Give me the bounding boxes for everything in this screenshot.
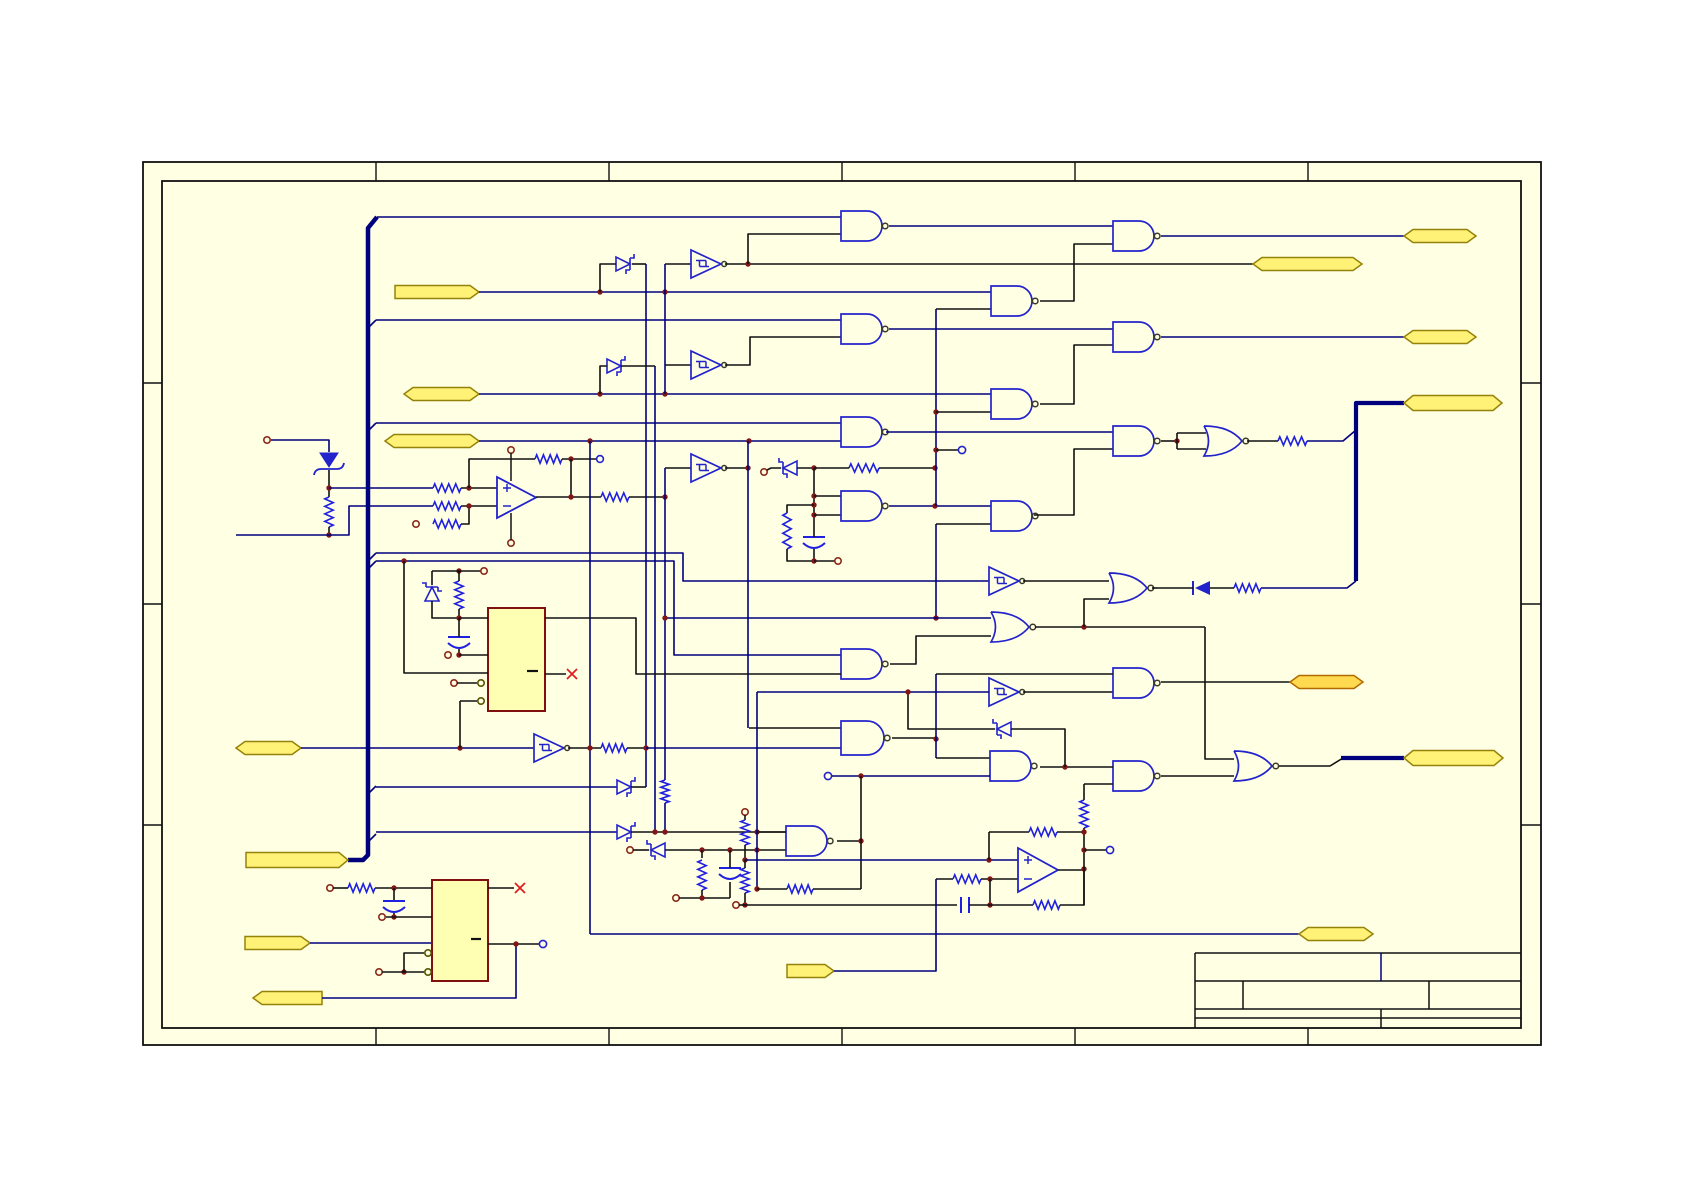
G5.B corner (936, 308, 991, 310)
row905 right part (969, 904, 1033, 906)
junction plus node (742, 857, 747, 862)
R13 top (458, 571, 460, 581)
resistor R4 (433, 520, 461, 528)
net F7 row (322, 944, 516, 998)
open pin P5 (835, 558, 841, 564)
op-amp U1 (497, 477, 536, 518)
net label FLAG15 (1404, 751, 1503, 766)
junction RC2 (699, 895, 704, 900)
U9 pin1 wire (459, 617, 488, 619)
wire D9 to node A (328, 470, 330, 497)
resistor R21 (vertical) (1080, 800, 1088, 828)
U9 pin2 wire (459, 654, 488, 656)
wire node B to minus row (329, 506, 433, 535)
U7 out (568, 747, 601, 749)
zener D7 (617, 822, 635, 842)
NOR1 tie (1176, 433, 1178, 449)
op-amp U1 V+ pin (508, 447, 514, 481)
zener D9 (filled, down) (314, 453, 344, 475)
open pin P13 (445, 652, 451, 658)
G17.A feed (749, 727, 841, 729)
resistor R20 (1033, 901, 1060, 909)
net label FLAG10 (1404, 230, 1476, 243)
op-amp U1 output (536, 496, 601, 498)
G3 out row (886, 431, 1113, 433)
G10 out to flag (1161, 336, 1404, 338)
NAND gate G7 (991, 501, 1038, 531)
diode D1 leads (1157, 587, 1193, 589)
G14.A wire (757, 831, 786, 833)
G9 out to flag (1161, 235, 1404, 237)
junction G17 out (933, 736, 938, 741)
G14 out (837, 840, 861, 842)
junction feedback (568, 456, 573, 461)
NAND gate G3 (841, 417, 888, 447)
wire R6 to trunk (629, 496, 665, 498)
junction U8 pin1 (391, 885, 396, 890)
op-amp U1 V- pin (508, 513, 514, 546)
junction U7 out (587, 745, 592, 750)
resistor R9 (1278, 437, 1307, 445)
junction R13 bottom (456, 615, 461, 620)
inverter U3 (schmitt) (691, 351, 727, 379)
bus BUS1 (thick vertical) (348, 217, 377, 860)
net label FLAG5 (wide) (246, 853, 348, 868)
cap C2 riser (393, 888, 395, 900)
G17 out row (892, 737, 936, 739)
open pin P4 (761, 469, 767, 475)
G1 out row (889, 225, 1113, 227)
INV2 out riser to G2.B (725, 337, 841, 365)
NAND gate G11 (1113, 426, 1160, 456)
junction row850 (699, 847, 759, 852)
NAND gate G6 (991, 389, 1038, 419)
junctions trunk T8a (933, 409, 938, 452)
net row 933 (590, 933, 1299, 935)
NOR gate G8 (991, 612, 1036, 642)
R9 to bus2 (1307, 430, 1356, 441)
trunk T3 (654, 366, 656, 832)
bus row top (377, 216, 841, 218)
U9 pin5 riser (459, 701, 461, 748)
zener D5 top lead (431, 571, 433, 585)
NAND gate G17 (841, 721, 890, 755)
G4.B feed (814, 514, 841, 516)
junction minus node (987, 876, 992, 881)
NOR1 in a (1177, 432, 1206, 434)
NAND gate G10 (1113, 322, 1160, 352)
resistor R1 (vertical) (325, 497, 333, 527)
zener D5 (422, 583, 442, 601)
resistor R7 (849, 464, 879, 472)
NAND gate G14 (786, 826, 833, 856)
junction U6 row tap (905, 689, 910, 694)
net F8 row (834, 879, 936, 971)
U8 output (488, 943, 540, 945)
net F2 row (479, 393, 991, 395)
junction P10 (401, 969, 406, 974)
G8 net to NOR4.A (1205, 627, 1234, 759)
junction node A (326, 485, 331, 490)
resistor R2 (433, 484, 461, 492)
fb top row (989, 831, 1029, 833)
zener D8 right lead (665, 849, 786, 851)
junction D5 top (456, 568, 461, 573)
junction plus row (986, 857, 991, 862)
diode D1 to R10 (1210, 587, 1234, 589)
P8 to R12 (333, 887, 348, 889)
G11 out to NOR1 (1161, 440, 1177, 442)
row 898 (679, 897, 730, 899)
G18 out (1040, 766, 1113, 768)
vert x814 (813, 468, 815, 535)
NAND gate G5 (991, 286, 1038, 316)
open pin P2 (413, 521, 419, 527)
junctions F2 row (597, 391, 667, 396)
G19 out jog to G8.B (890, 636, 991, 664)
border zone ticks (143, 162, 1541, 1045)
zener D6 (617, 777, 635, 797)
stub to pin P12 (459, 570, 481, 572)
trunk T2 (zener column) (645, 264, 647, 787)
U9 riser from bus row (404, 561, 488, 673)
U8 pin bubble a (425, 969, 431, 975)
feedback tap (562, 458, 596, 460)
zener D2 (616, 254, 634, 274)
minus row (936, 878, 953, 880)
minus riser (989, 879, 991, 905)
P17 lead (744, 815, 746, 820)
U9 nc stub (545, 673, 566, 675)
resistor R11 (601, 744, 627, 752)
G5 out to G9.B (1040, 244, 1113, 301)
net label FLAG7 (253, 992, 322, 1005)
wire D3 node to R7 (814, 467, 849, 469)
U10 out (1058, 869, 1084, 871)
plus row (745, 859, 1018, 861)
net label FLAG4 (236, 742, 301, 755)
x814 R8 branch (787, 505, 814, 513)
bus row IC1b (376, 561, 841, 655)
cap C1 top lead (813, 535, 815, 537)
R21 bottom (1083, 828, 1085, 905)
C2 bottom (393, 913, 395, 917)
fb riser left (988, 832, 990, 860)
INV4 out (725, 467, 748, 469)
junction T8 row468 (932, 465, 937, 470)
NAND gate G13 (1113, 761, 1160, 791)
R15 riser (701, 850, 703, 858)
junction row905 left (742, 902, 747, 907)
open pin P19 (blue) (1106, 846, 1113, 853)
open pin P16 (673, 895, 679, 901)
NAND gate G4 (841, 491, 888, 521)
bus entry stubs (368, 320, 376, 842)
R11 to trunk (627, 747, 646, 749)
capacitor C4 (719, 868, 741, 879)
junction trunk T1 bottom (662, 494, 667, 499)
G13 out to NOR4.B (1161, 775, 1234, 777)
junction RC bottom (811, 558, 816, 563)
zener D7 right lead (631, 831, 786, 833)
junctions F4 row (457, 745, 462, 750)
open pin P9 (379, 914, 385, 920)
G6.B stub (936, 411, 991, 413)
P10 row (382, 971, 424, 973)
zener D3 to node (797, 467, 814, 469)
G8 out row (1035, 626, 1205, 628)
junction trunk T8b (933, 615, 938, 620)
NC stub row450 (936, 449, 959, 451)
U6 out to G12.B (1023, 691, 1113, 693)
open pin P17 (742, 809, 748, 815)
junction C2 bottom (391, 914, 396, 919)
junction row905 mid (987, 902, 992, 907)
R14 leads (757, 888, 787, 890)
INV1 out (725, 263, 1253, 265)
junction INV4 out (745, 465, 750, 470)
zener D10 feed (908, 692, 995, 729)
resistor R8 (vertical) (783, 513, 791, 549)
resistor R6 (601, 493, 629, 501)
junction INV1 out (745, 261, 750, 266)
NAND gate G1 (841, 211, 888, 241)
no-connect X2 (567, 669, 577, 679)
U9 pin4 wire (457, 682, 477, 684)
open pin P7 (blue) (824, 772, 831, 779)
G18.B row (832, 775, 990, 777)
feedback riser up (469, 459, 535, 488)
right riser x1084 (1083, 784, 1085, 800)
net label FLAG11 (1253, 258, 1362, 271)
net label FLAG1 (395, 286, 479, 299)
INV2 input (665, 364, 691, 366)
R16 bottom (744, 845, 746, 860)
inverter U4 (schmitt) (691, 454, 727, 482)
P18 stub (739, 904, 745, 906)
U8 out X stub (488, 887, 514, 889)
wire P1 to zener D9 (271, 440, 329, 452)
U9 output to G19.B (545, 618, 841, 674)
open pin P6 (blue) (958, 446, 965, 453)
junction G4 out trunk (932, 503, 937, 508)
G12 out to flag (1161, 681, 1290, 683)
diode D1 (filled) (1193, 581, 1210, 595)
wire R7 to trunk T8 (879, 467, 935, 469)
zener D2 leads (600, 264, 616, 292)
NAND gate G19 (841, 649, 888, 679)
net F6 row (310, 942, 432, 944)
junction IC1 feed (401, 558, 406, 563)
P10 riser (404, 953, 424, 972)
NOR gate NOR4 (1234, 751, 1279, 781)
zener D10 out (1011, 729, 1065, 767)
zener D4 leads (600, 366, 607, 394)
NOR1 out (1247, 440, 1278, 442)
U9 pin bubble c (478, 680, 484, 686)
NOR2 out (1152, 587, 1157, 589)
U6 input row (757, 691, 989, 693)
junction C3 bottom (456, 652, 461, 657)
wire R1 bottom (328, 527, 330, 535)
open pin P3 (blue) (597, 456, 604, 463)
zener D2 right lead (632, 263, 646, 265)
trunk T8b (935, 524, 937, 618)
IC U8 (box) (432, 880, 488, 981)
wire R2 out (461, 487, 497, 489)
zener D8 left lead (633, 849, 649, 851)
bus row 2 (376, 319, 841, 321)
net label FLAG9 (1299, 928, 1373, 941)
net F4 row (301, 747, 534, 749)
resistor R12 (348, 884, 375, 892)
resistor R16 (vertical) (741, 820, 749, 845)
R13 bottom (458, 609, 460, 618)
G18.A corner (936, 757, 990, 759)
net row 748 cont (646, 747, 841, 749)
row905 left part (745, 904, 957, 906)
trunk T7 (747, 441, 749, 728)
G7 out row (1034, 449, 1113, 515)
bus2 to NOR2 net (1261, 581, 1356, 588)
title block (1195, 953, 1521, 1028)
G2 out row (889, 328, 1113, 330)
junction G14 out (858, 838, 863, 843)
R14 right lead (813, 888, 861, 890)
bus row zener Z3 (376, 786, 617, 788)
NAND gate G18 (990, 751, 1037, 781)
R12 to IC U8 pin1 (375, 887, 432, 889)
C2 to U8 pin2 (386, 916, 432, 918)
R17 bottom (744, 893, 746, 905)
junctions x1084 (1081, 829, 1086, 852)
trunk T9 (U6 riser) (756, 692, 758, 889)
open pin P10 (376, 969, 382, 975)
C4 top (729, 850, 731, 868)
net label FLAG12 (1404, 331, 1476, 344)
U9 pin5 wire (460, 700, 477, 702)
no-connect X1 (515, 883, 525, 893)
wire R3 out (461, 505, 497, 507)
G6 out to G10.B (1040, 345, 1113, 404)
R17 top (744, 860, 746, 868)
resistor R14 (787, 885, 813, 893)
bus row IC1a (376, 553, 989, 581)
resistor R10 (1234, 584, 1261, 592)
inverter U6 (schmitt) (989, 678, 1025, 706)
NOR1 in b (1177, 448, 1206, 450)
junction output U1 (568, 494, 573, 499)
open pin P1 (264, 437, 270, 443)
capacitor C2 (383, 901, 405, 912)
G12.A row (936, 673, 1113, 675)
inverter U5 (schmitt) (989, 567, 1025, 595)
wire R4 to inverting node (461, 506, 469, 524)
G13.B wire (1084, 783, 1113, 785)
R19 to minus (981, 878, 1018, 880)
feedback down to output (570, 459, 572, 497)
junction row832 (652, 829, 759, 834)
junction G8 out (1081, 624, 1086, 629)
net label FLAG13 (1404, 396, 1502, 411)
thick net to FLAG15 (1341, 756, 1404, 760)
capacitor C5 (series) (961, 897, 969, 913)
INV4 input (665, 467, 691, 469)
IC U9 (box) (488, 608, 545, 711)
resistor R5 (feedback) (535, 455, 562, 463)
junction U10 out (1081, 866, 1086, 871)
bus BUS2 (thick) (1356, 403, 1404, 581)
zener D3 anode lead (767, 468, 781, 470)
trunk T1b (664, 468, 666, 780)
stub to P19 (1084, 849, 1107, 851)
C4 bottom (729, 882, 731, 898)
U8 pin bubble b (425, 950, 431, 956)
G7.B corner (936, 523, 991, 525)
junction R2 node (466, 485, 471, 508)
cap C1 bottom lead (813, 549, 815, 561)
fb top right (1057, 831, 1084, 833)
junction trunk T2 end (643, 745, 648, 750)
row905 corner (1060, 869, 1084, 905)
op-amp U10 (1018, 848, 1058, 892)
zener D5 bottom lead (432, 601, 459, 618)
NOR4 out (1279, 758, 1343, 766)
zener D3 (779, 458, 797, 478)
NOR gate NOR1 (1204, 426, 1249, 456)
junctions x814 (811, 493, 816, 517)
net row to opamp + input (329, 487, 433, 489)
NAND gate G9 (1113, 221, 1160, 251)
resistor R3 (433, 502, 461, 510)
resistor R22 (on trunk T1) (661, 780, 669, 803)
bus row 3 (376, 422, 841, 424)
feedback riser (860, 841, 862, 889)
net label FLAG6 (245, 937, 310, 950)
net label FLAG2 (404, 388, 479, 401)
open pin P11 (blue) (539, 940, 546, 947)
R15 bottom (701, 890, 703, 898)
capacitor C1 (803, 537, 825, 548)
resistor R17 (vertical) (741, 868, 749, 893)
zener D8 (647, 840, 665, 860)
junction row776 (858, 773, 863, 778)
riser x936 mid (935, 674, 937, 758)
U9 bias row top (432, 570, 459, 572)
RC bottom stub (814, 560, 835, 562)
G8 to NOR2.B (1084, 599, 1109, 627)
junction NOR1 in (1174, 438, 1179, 443)
trunk T6 riser F3 net (589, 441, 591, 934)
junction T9 (754, 886, 759, 891)
INV1 input (665, 263, 691, 265)
junctions F1 row (597, 289, 667, 294)
open pin P15 (627, 847, 633, 853)
inverter U2 (schmitt) (691, 250, 727, 278)
U5 out to NOR2.A (1023, 580, 1109, 582)
resistor R19 (953, 875, 981, 883)
zener D4 (607, 356, 625, 376)
G14 out riser (860, 776, 862, 841)
C3 bottom (458, 649, 460, 655)
net label FLAG3 (385, 435, 479, 448)
net label FLAG14 (1290, 676, 1363, 689)
net F1 row (479, 291, 991, 293)
bus row zener Z4 (376, 831, 617, 833)
junction D3 node (811, 465, 816, 470)
junction G18 out (1062, 764, 1067, 769)
net row 618 (665, 617, 991, 619)
